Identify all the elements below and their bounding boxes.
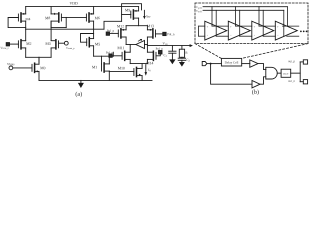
port Vbias [7, 63, 14, 70]
ground C2 [179, 62, 185, 67]
capacitor C2 [178, 57, 189, 62]
port out_p [288, 60, 307, 64]
transistor M10 [118, 64, 142, 81]
wire M3-M8 drain [50, 22, 52, 58]
transistor M4 [8, 7, 30, 30]
gate bus M8-M6 [51, 17, 86, 27]
AND gate U4 [266, 67, 277, 79]
wire sources M12-M13 [126, 25, 147, 27]
wire feedback [211, 64, 252, 85]
transistor M2 [10, 29, 32, 57]
label (b) [252, 90, 259, 96]
buffer block [281, 69, 291, 77]
ground rail [39, 79, 152, 81]
transistor M0 [13, 57, 45, 80]
wire AND out [277, 72, 281, 74]
wire node to M9 [104, 21, 122, 29]
wire input [207, 63, 222, 65]
buffer U3 [252, 81, 260, 88]
bus wires [203, 7, 287, 11]
transistor M9 [122, 4, 142, 26]
node junction [210, 63, 212, 65]
transistor M6 [86, 7, 99, 39]
buffer U2 [250, 60, 258, 67]
delay cell D2 [228, 7, 252, 40]
dashed box delay chain [195, 3, 308, 44]
ground C1 [169, 59, 175, 64]
delay cell block [221, 58, 241, 66]
port Pol_n M11 [106, 51, 113, 57]
port Vtune_n [0, 43, 9, 50]
wire U2 to AND [258, 64, 266, 70]
wire mirror M1-M10 [109, 70, 134, 72]
label Vpcb1 [196, 6, 202, 9]
resistor R [179, 46, 187, 58]
port Pol_n M13 [163, 32, 175, 35]
current arrow IB [143, 10, 150, 19]
ellipsis dots [300, 31, 307, 33]
transistor M11 [112, 45, 130, 64]
port input b [202, 62, 207, 66]
transistor M1 [92, 52, 113, 80]
port Pol_p M12 [106, 30, 114, 36]
delay cell D1 [205, 7, 229, 40]
ground [78, 80, 84, 88]
wire tail stage1 [26, 57, 51, 62]
callout dashes [195, 44, 308, 59]
port Vtune_p [64, 41, 74, 49]
inverter buffer [126, 39, 147, 48]
feedback wrap wires [199, 26, 205, 36]
wire Vctrl [147, 42, 193, 47]
transistor M5 [81, 34, 101, 57]
port out_n [288, 80, 307, 84]
transistor M13 [147, 25, 163, 52]
port Pol_p M14 [156, 48, 163, 54]
transistor M12 [110, 25, 127, 45]
label (a) [76, 92, 82, 98]
transistor M14 [146, 51, 160, 64]
wire U3 to AND [260, 77, 266, 84]
current arrow Io [145, 65, 151, 76]
transistor M8 [45, 7, 61, 28]
wire outputs [291, 62, 304, 82]
wire tail stage2 [130, 63, 147, 65]
delay cell D3 [252, 7, 275, 40]
capacitor C1 [164, 46, 176, 60]
label Vncb1 [196, 10, 202, 12]
delay cell D4 [275, 7, 299, 40]
VDD rail [26, 2, 139, 7]
transistor M3 [46, 40, 65, 49]
node wire row [26, 28, 104, 30]
wire block out [242, 63, 250, 65]
